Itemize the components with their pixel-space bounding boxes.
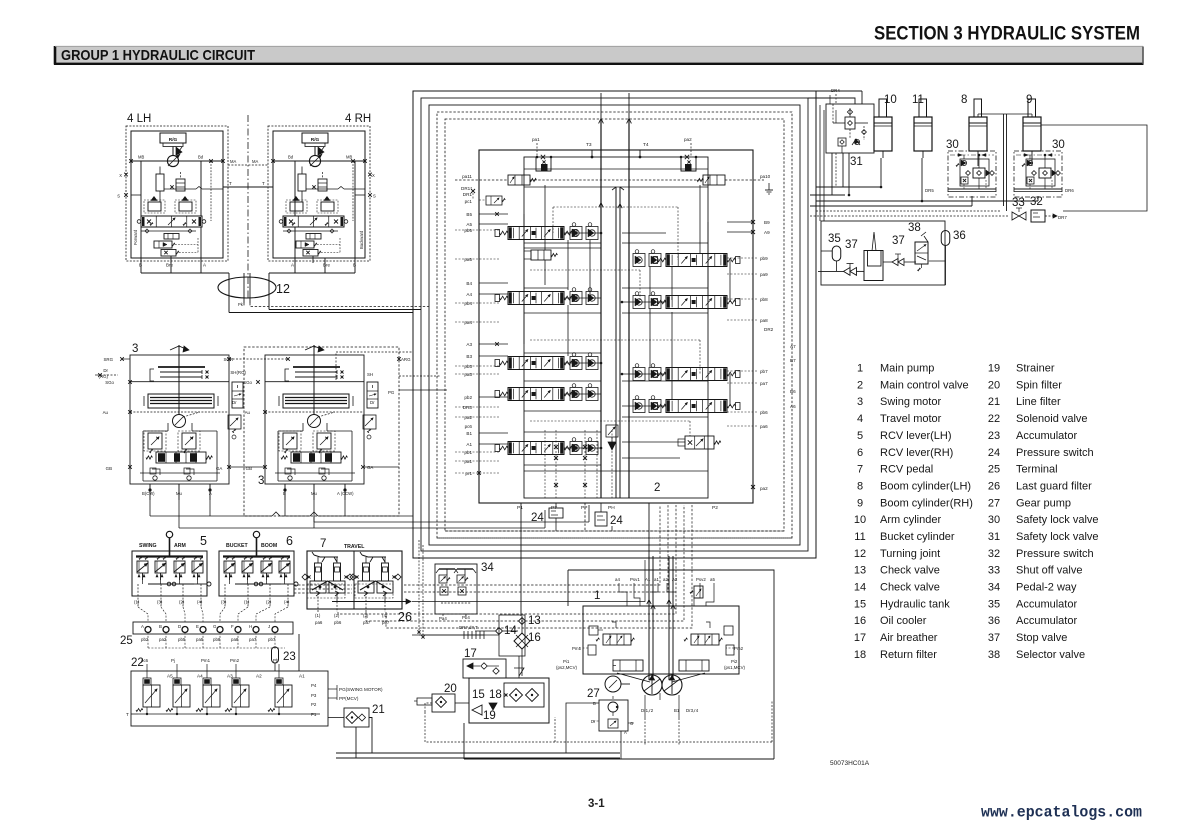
T gallery line <box>164 187 223 190</box>
svg-text:33: 33 <box>988 565 1000 577</box>
svg-text:B: B <box>593 701 596 706</box>
MCV bottom ports <box>517 505 718 511</box>
RCV lever block body <box>132 551 207 596</box>
solenoid P ports <box>311 683 317 717</box>
svg-text:www.epcatalogs.com: www.epcatalogs.com <box>981 804 1142 822</box>
swing parking brake plates <box>150 367 209 381</box>
svg-text:Pm1: Pm1 <box>572 646 582 651</box>
legend component list <box>854 363 1099 662</box>
arm-1 spool check valves <box>570 353 598 370</box>
swing shaft with arrow <box>305 345 324 415</box>
svg-text:M: M <box>156 436 159 440</box>
swing Au gallery dashed <box>265 411 364 413</box>
swing relief valve left <box>144 431 166 453</box>
hydraulic tank 15 <box>469 678 549 723</box>
travel motor outer dashed box <box>268 126 370 261</box>
svg-text:16: 16 <box>854 615 866 627</box>
svg-text:pc6: pc6 <box>141 658 149 663</box>
swing crossover spool <box>146 452 212 463</box>
port riser Bre <box>170 256 172 263</box>
swing motor body <box>130 355 229 484</box>
svg-text:24: 24 <box>610 515 623 527</box>
tank vent <box>514 656 524 678</box>
oil cooler 16 <box>514 633 530 649</box>
pressure switch 24 left <box>531 503 563 524</box>
svg-text:36: 36 <box>988 615 1000 627</box>
port S mark <box>355 193 376 198</box>
wire terminal to solenoid A1 <box>298 634 300 671</box>
pedal levers <box>312 552 386 562</box>
svg-text:SGo: SGo <box>105 380 114 385</box>
pilot relief valve 2 <box>161 238 198 256</box>
shut off valve 33 <box>1012 208 1026 220</box>
svg-text:pb2: pb2 <box>464 395 472 400</box>
pressure switch 32 box <box>1031 210 1045 222</box>
travel motor outer dashed box <box>126 126 228 261</box>
port line MB-Bd <box>271 159 367 163</box>
svg-text:A9: A9 <box>764 230 770 235</box>
PT return line down <box>555 518 557 531</box>
RCV pedal block body <box>307 551 402 609</box>
svg-text:SECTION 3 HYDRAULIC SYSTEM: SECTION 3 HYDRAULIC SYSTEM <box>874 23 1140 45</box>
svg-text:Psv2: Psv2 <box>696 577 706 582</box>
svg-text:T: T <box>262 181 265 186</box>
svg-text:26: 26 <box>398 610 412 624</box>
svg-text:G: G <box>213 624 217 629</box>
solenoid drain rail T <box>126 712 320 717</box>
brake release valve left <box>144 197 165 214</box>
MCV frame 3 <box>429 105 800 545</box>
svg-text:(2): (2) <box>334 613 340 618</box>
svg-text:RCV lever(RH): RCV lever(RH) <box>880 447 953 459</box>
pilot line pa11-pa10 <box>455 179 764 181</box>
svg-text:34: 34 <box>481 562 494 574</box>
servo piston right <box>672 660 709 682</box>
svg-text:(ps2,MCV): (ps2,MCV) <box>556 665 578 670</box>
svg-text:Check valve: Check valve <box>880 565 940 577</box>
arm-2 spool <box>653 368 740 381</box>
svg-text:pb1: pb1 <box>464 450 472 455</box>
pump bottom labels <box>641 708 699 713</box>
swing bottom ports <box>283 484 346 500</box>
gear pump suction wire <box>566 696 621 759</box>
cooler wires <box>475 616 522 676</box>
svg-text:(3): (3) <box>221 600 227 605</box>
svg-text:pa2: pa2 <box>684 137 692 142</box>
svg-text:SGo: SGo <box>243 380 252 385</box>
bottom drain dashed bus <box>462 700 772 742</box>
svg-text:GB: GB <box>106 466 112 471</box>
svg-text:a4: a4 <box>615 577 620 582</box>
svg-text:R/G: R/G <box>311 137 320 143</box>
svg-text:B1: B1 <box>466 431 472 436</box>
svg-text:pb9: pb9 <box>760 256 768 261</box>
P1 line down <box>520 503 522 616</box>
svg-text:12: 12 <box>854 548 866 560</box>
main pump front <box>642 675 662 695</box>
svg-text:PP(MCV): PP(MCV) <box>339 696 359 701</box>
svg-text:pa1: pa1 <box>464 459 472 464</box>
svg-text:24: 24 <box>988 447 1000 459</box>
svg-text:P1: P1 <box>517 505 523 511</box>
svg-text:M: M <box>325 436 328 440</box>
svg-text:Accumulator: Accumulator <box>1016 430 1077 442</box>
svg-text:Travel motor: Travel motor <box>880 413 942 425</box>
svg-text:TRAVEL: TRAVEL <box>344 544 365 550</box>
svg-text:B: B <box>353 263 356 268</box>
svg-text:DR2: DR2 <box>764 327 774 332</box>
svg-text:Return filter: Return filter <box>880 649 937 661</box>
svg-text:8: 8 <box>857 481 863 493</box>
svg-text:Bucket cylinder: Bucket cylinder <box>880 531 955 543</box>
cylinder 9 rod side wire <box>1041 125 1147 211</box>
svg-text:Dr: Dr <box>103 368 108 373</box>
svg-text:Check valve: Check valve <box>880 582 940 594</box>
boom-1 spool check valves <box>570 288 598 305</box>
svg-text:16: 16 <box>528 632 541 644</box>
MCV right port x marks <box>751 220 755 489</box>
svg-text:Selector valve: Selector valve <box>1016 649 1085 661</box>
svg-text:Swing motor: Swing motor <box>880 396 941 408</box>
svg-text:25: 25 <box>988 464 1000 476</box>
svg-text:F: F <box>231 624 234 629</box>
svg-text:3: 3 <box>258 475 264 487</box>
svg-text:D: D <box>178 624 181 629</box>
svg-text:4: 4 <box>857 413 863 425</box>
swing make-up valve SH <box>367 382 378 408</box>
RCV lever bar <box>136 555 203 557</box>
servo piston left <box>613 660 650 682</box>
MCV bottom pilot区 network <box>545 425 618 498</box>
MCV internal pilot network <box>524 169 730 471</box>
svg-text:Au: Au <box>245 410 251 415</box>
drain symbol right <box>765 183 773 194</box>
svg-text:pb6: pb6 <box>334 620 342 625</box>
pilot relief valve 2 <box>303 238 340 256</box>
MCV left port labels <box>461 174 472 476</box>
travel-LH spool check valves <box>570 223 598 240</box>
travel-RH spool check valves <box>633 250 661 267</box>
RCV reducing valve units <box>137 557 203 580</box>
svg-text:GA: GA <box>216 466 222 471</box>
line filter 21 body <box>344 708 369 727</box>
drain dashed riser pair <box>417 540 499 639</box>
swing port x marks <box>98 357 401 469</box>
svg-text:pa2: pa2 <box>760 486 768 491</box>
svg-text:Boom cylinder(LH): Boom cylinder(LH) <box>880 481 971 493</box>
svg-text:SH: SH <box>367 372 373 377</box>
svg-text:Pi2: Pi2 <box>731 659 738 664</box>
svg-text:BUCKET: BUCKET <box>226 543 248 549</box>
svg-text:Bd: Bd <box>198 155 204 160</box>
svg-text:30: 30 <box>988 514 1000 526</box>
regulator left <box>572 622 634 655</box>
svg-text:pr1: pr1 <box>465 471 472 476</box>
svg-text:T4: T4 <box>643 142 649 148</box>
internal dashed riser <box>210 161 212 221</box>
pump top port stubs <box>615 577 715 582</box>
svg-text:S: S <box>117 194 120 199</box>
svg-text:A: A <box>203 263 206 268</box>
svg-text:33: 33 <box>1012 197 1025 209</box>
svg-text:SWING: SWING <box>139 543 157 549</box>
svg-text:11: 11 <box>912 94 924 106</box>
svg-text:Pa4: Pa4 <box>439 616 447 621</box>
svg-text:3-1: 3-1 <box>588 798 605 810</box>
wire P1 to filter 21 <box>328 717 344 719</box>
svg-text:Au: Au <box>103 410 109 415</box>
wire filter 21 output <box>336 718 620 759</box>
svg-text:37: 37 <box>845 239 858 251</box>
svg-text:19: 19 <box>988 363 1000 375</box>
svg-text:Pi1: Pi1 <box>563 659 570 664</box>
stop valve 37 right <box>892 254 904 266</box>
svg-text:pb6: pb6 <box>760 410 768 415</box>
svg-text:E: E <box>196 624 199 629</box>
svg-text:P3: P3 <box>311 693 317 698</box>
svg-text:5: 5 <box>857 430 863 442</box>
T gallery line <box>306 187 365 190</box>
svg-text:DR4: DR4 <box>831 88 840 93</box>
svg-text:Turning joint: Turning joint <box>880 548 940 560</box>
swing pilot valve <box>228 415 241 439</box>
left port stub wires <box>455 212 508 475</box>
svg-text:Dr: Dr <box>370 400 375 405</box>
swing valve cavity <box>278 423 352 481</box>
svg-text:Line filter: Line filter <box>1016 396 1061 408</box>
swing Au gallery dashed <box>130 411 229 413</box>
PH line down <box>611 526 613 531</box>
svg-text:22: 22 <box>988 413 1000 425</box>
svg-text:Dr3,r4: Dr3,r4 <box>686 708 699 713</box>
svg-text:DR1: DR1 <box>463 192 473 197</box>
svg-text:15: 15 <box>472 689 485 701</box>
signal valve pc1 <box>471 189 505 205</box>
svg-text:8: 8 <box>961 94 967 106</box>
svg-text:pa11: pa11 <box>462 174 472 179</box>
svg-text:a5: a5 <box>710 577 715 582</box>
RCV lever block body <box>219 551 294 596</box>
svg-text:1: 1 <box>594 590 600 602</box>
svg-text:9: 9 <box>857 497 863 509</box>
cylinder 10 <box>874 99 892 158</box>
travel motor rotary group <box>309 154 322 167</box>
svg-text:pb7: pb7 <box>760 369 768 374</box>
counterbalance spool <box>137 216 206 227</box>
svg-text:4 RH: 4 RH <box>345 113 371 125</box>
travel lines to MCV frames <box>229 303 429 313</box>
swing motor output circle <box>173 412 201 428</box>
svg-text:R/G: R/G <box>169 137 178 143</box>
svg-text:T: T <box>126 712 129 717</box>
svg-text:Accumulator: Accumulator <box>1016 615 1077 627</box>
svg-text:B: B <box>283 491 286 496</box>
safety lock valve 30 box <box>1014 151 1062 197</box>
swing spool <box>495 442 577 455</box>
svg-text:A: A <box>141 624 144 629</box>
air breather 17 box <box>463 659 506 678</box>
pedal 2-way box <box>435 564 477 614</box>
svg-text:Bd: Bd <box>288 155 294 160</box>
svg-text:27: 27 <box>988 497 1000 509</box>
RCV output manifold <box>230 573 299 586</box>
RCV to terminal pilot wires <box>138 607 288 622</box>
svg-text:Strainer: Strainer <box>1016 363 1055 375</box>
PG PP port callouts <box>328 685 383 701</box>
svg-text:pc6: pc6 <box>465 424 473 429</box>
swing pilot wires left <box>95 359 399 467</box>
svg-text:10: 10 <box>854 514 866 526</box>
RCV output drops <box>221 584 290 607</box>
travel-RH spool <box>653 254 740 267</box>
swing parking brake plates <box>285 367 344 381</box>
svg-text:B(CW): B(CW) <box>142 491 155 496</box>
terminal block 25 <box>133 622 293 634</box>
svg-text:27: 27 <box>587 688 600 700</box>
svg-text:A: A <box>209 491 212 496</box>
port riser B <box>354 161 356 263</box>
svg-text:(1): (1) <box>315 613 321 618</box>
pilot relief valve 1 <box>296 241 340 248</box>
MCV frame 4 dashed <box>437 112 792 538</box>
svg-text:A1: A1 <box>466 442 472 447</box>
svg-text:35: 35 <box>828 233 841 245</box>
port riser A upper <box>200 161 202 216</box>
svg-text:SH(RG): SH(RG) <box>230 370 246 375</box>
svg-text:pa6: pa6 <box>315 620 323 625</box>
svg-text:H: H <box>249 624 252 629</box>
svg-text:Bre: Bre <box>166 263 174 268</box>
svg-text:32: 32 <box>988 548 1000 560</box>
port line MB-Bd <box>129 159 225 163</box>
svg-text:pb4: pb4 <box>464 301 472 306</box>
svg-text:Pressure switch: Pressure switch <box>1016 548 1094 560</box>
svg-text:pb5: pb5 <box>464 228 472 233</box>
svg-text:B9: B9 <box>764 220 770 225</box>
svg-text:Solenoid valve: Solenoid valve <box>1016 413 1088 425</box>
straight travel spool <box>678 436 721 449</box>
MCV right port labels <box>760 174 796 491</box>
svg-text:(1): (1) <box>244 600 250 605</box>
svg-text:RCV lever(LH): RCV lever(LH) <box>880 430 952 442</box>
brake release valve left <box>286 197 307 214</box>
port riser A <box>200 227 202 263</box>
swing anti-inversion valves <box>275 468 355 480</box>
pressure reducing spool <box>164 234 179 240</box>
svg-text:21: 21 <box>372 704 385 716</box>
port S mark <box>117 193 141 198</box>
port X mark <box>368 173 375 178</box>
swing make-up valve SH <box>232 382 243 408</box>
bottom return bus <box>464 723 774 759</box>
svg-text:A2: A2 <box>256 674 262 679</box>
svg-text:A4: A4 <box>197 674 203 679</box>
svg-text:6: 6 <box>857 447 863 459</box>
brake valve R/G box <box>302 133 328 156</box>
gear pump 27 box <box>591 700 634 735</box>
boom-2 spool check valves <box>633 292 661 309</box>
svg-text:A2: A2 <box>672 577 678 582</box>
travel motor rotary group <box>167 154 180 167</box>
svg-text:Air breather: Air breather <box>880 632 938 644</box>
svg-text:11: 11 <box>854 531 865 543</box>
svg-text:Psv1: Psv1 <box>630 577 640 582</box>
svg-text:Dr1,r2: Dr1,r2 <box>641 708 654 713</box>
svg-text:Boom cylinder(RH): Boom cylinder(RH) <box>880 497 973 509</box>
svg-text:DR1*: DR1* <box>461 186 472 191</box>
tank suction wires <box>425 703 469 742</box>
swing relief valve right <box>178 431 200 453</box>
sub spool pa5 <box>524 250 557 260</box>
svg-text:2: 2 <box>857 379 863 391</box>
svg-text:P2: P2 <box>712 505 718 511</box>
svg-text:23: 23 <box>988 430 1000 442</box>
svg-text:pb8: pb8 <box>760 297 768 302</box>
label Pi1 <box>556 659 578 670</box>
Psv2 valve <box>690 586 703 598</box>
svg-text:pa6: pa6 <box>760 424 768 429</box>
svg-text:A6: A6 <box>790 404 796 409</box>
svg-text:ARG: ARG <box>401 357 411 362</box>
svg-text:T: T <box>229 181 232 186</box>
svg-text:Bre: Bre <box>323 263 331 268</box>
svg-text:15: 15 <box>854 598 866 610</box>
accumulator 23 stem <box>274 663 276 671</box>
svg-text:DR#,d#,T: DR#,d#,T <box>459 625 478 630</box>
bucket spool check valves <box>570 384 598 401</box>
svg-text:26: 26 <box>988 481 1000 493</box>
svg-text:18: 18 <box>854 649 866 661</box>
svg-text:(2): (2) <box>266 600 272 605</box>
svg-text:B5: B5 <box>466 212 472 217</box>
pedal output labels <box>315 613 390 625</box>
solenoid block body <box>131 671 328 726</box>
brake release valve right <box>175 197 196 214</box>
RCV output drops <box>134 584 203 607</box>
accumulator <box>941 231 950 246</box>
svg-text:3: 3 <box>857 396 863 408</box>
terminal drop wires <box>148 633 285 649</box>
svg-text:23: 23 <box>283 651 296 663</box>
brake valve R/G box <box>160 133 186 156</box>
svg-text:4 LH: 4 LH <box>127 113 151 125</box>
svg-text:25: 25 <box>120 635 133 647</box>
svg-text:GROUP 1 HYDRAULIC CIRCUIT: GROUP 1 HYDRAULIC CIRCUIT <box>61 47 255 64</box>
svg-text:17: 17 <box>854 632 866 644</box>
svg-text:A4: A4 <box>466 292 472 297</box>
svg-text:30: 30 <box>1052 139 1065 151</box>
svg-text:S: S <box>373 194 376 199</box>
RCV output manifold <box>143 573 212 586</box>
svg-text:A (CCW): A (CCW) <box>337 491 354 496</box>
stop valve 37 left <box>844 264 857 276</box>
svg-text:a2: a2 <box>663 577 668 582</box>
svg-text:2: 2 <box>654 482 660 494</box>
svg-text:13: 13 <box>854 565 866 577</box>
travel motor body <box>131 131 223 258</box>
solenoid valve units <box>136 671 305 714</box>
svg-text:Pressure switch: Pressure switch <box>1016 447 1094 459</box>
svg-text:pb3: pb3 <box>464 364 472 369</box>
svg-text:pa2: pa2 <box>464 415 472 420</box>
pilot gallery line <box>283 229 338 233</box>
wire 32 to DR7 <box>1045 214 1067 220</box>
turning joint 12 <box>218 277 276 298</box>
swing motor body <box>265 355 364 484</box>
swing motor RH outer dashed box <box>244 347 399 516</box>
svg-text:DR6: DR6 <box>1065 188 1074 193</box>
pilot gear pump circle <box>605 676 630 692</box>
